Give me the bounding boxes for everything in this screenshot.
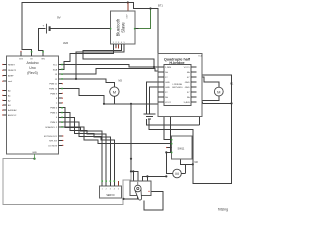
svg-text:SW11: SW11 xyxy=(178,146,185,150)
svg-text:fritzing: fritzing xyxy=(218,208,228,212)
svg-text:SDA: SDA xyxy=(53,68,58,71)
svg-text:3.3V: 3.3V xyxy=(127,14,129,19)
svg-text:M: M xyxy=(113,89,116,94)
svg-text:Arduino: Arduino xyxy=(26,61,38,65)
svg-text:CO/ MOS: CO/ MOS xyxy=(48,145,58,147)
svg-text:VCC1: VCC1 xyxy=(184,67,191,69)
svg-text:GND: GND xyxy=(185,82,190,84)
svg-text:PWM 10: PWM 10 xyxy=(49,89,58,91)
svg-text:2: 2 xyxy=(115,42,116,44)
svg-text:M: M xyxy=(175,171,178,176)
svg-text:GND: GND xyxy=(185,87,190,89)
svg-text:1: 1 xyxy=(102,189,103,191)
svg-text:BT1: BT1 xyxy=(158,4,163,8)
svg-text:SN754410: SN754410 xyxy=(172,87,183,89)
svg-text:GND: GND xyxy=(32,152,37,154)
svg-text:AVR: AVR xyxy=(63,41,68,45)
svg-text:1,2EN: 1,2EN xyxy=(165,67,171,69)
svg-text:1: 1 xyxy=(113,42,114,44)
svg-text:GND: GND xyxy=(165,87,170,89)
svg-text:RESET: RESET xyxy=(8,65,16,67)
svg-text:AREF: AREF xyxy=(8,75,14,78)
svg-text:RESET2: RESET2 xyxy=(8,70,17,72)
svg-text:PWM 11: PWM 11 xyxy=(49,84,58,86)
svg-text:4: 4 xyxy=(121,42,122,44)
svg-text:3: 3 xyxy=(118,42,119,44)
svg-text:3: 3 xyxy=(110,189,111,191)
svg-text:3,4EN: 3,4EN xyxy=(184,102,190,104)
svg-text:M: M xyxy=(217,89,220,94)
svg-text:5: 5 xyxy=(118,189,119,191)
svg-text:ioref: ioref xyxy=(8,80,12,83)
svg-text:PWM 9: PWM 9 xyxy=(50,93,58,95)
svg-text:(Rev3): (Rev3) xyxy=(27,71,38,75)
svg-text:VIN: VIN xyxy=(41,59,45,61)
svg-text:SCAV/SCL 2: SCAV/SCL 2 xyxy=(45,126,58,129)
svg-text:2: 2 xyxy=(106,189,107,191)
svg-text:L293DNE: L293DNE xyxy=(173,84,183,86)
svg-text:EXT/SD0 D21: EXT/SD0 D21 xyxy=(44,136,58,138)
svg-text:SERVO: SERVO xyxy=(106,194,114,197)
svg-text:PWM 6: PWM 6 xyxy=(50,108,58,110)
svg-text:4: 4 xyxy=(114,189,115,191)
svg-text:A4/SDA2: A4/SDA2 xyxy=(8,109,17,112)
svg-text:Uno: Uno xyxy=(29,66,35,70)
svg-text:PWM 3: PWM 3 xyxy=(50,122,58,124)
svg-text:R/PL EX: R/PL EX xyxy=(49,141,58,143)
svg-text:PWM 5: PWM 5 xyxy=(50,113,58,115)
svg-text:VCC2: VCC2 xyxy=(165,102,172,104)
svg-text:A5/SCL2: A5/SCL2 xyxy=(8,114,17,117)
svg-text:+: + xyxy=(43,24,45,28)
svg-text:GND: GND xyxy=(165,82,170,84)
svg-text:5: 5 xyxy=(124,42,125,44)
svg-text:Slave: Slave xyxy=(121,22,126,33)
svg-text:9V: 9V xyxy=(57,16,61,20)
